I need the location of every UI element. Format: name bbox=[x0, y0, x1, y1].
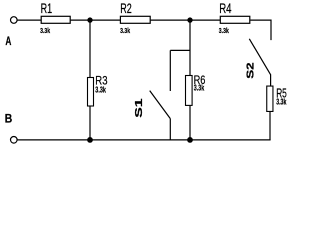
svg-text:3.3k: 3.3k bbox=[219, 26, 230, 35]
svg-text:R2: R2 bbox=[120, 1, 132, 16]
svg-text:B: B bbox=[5, 111, 13, 125]
svg-text:S1: S1 bbox=[134, 98, 145, 118]
svg-text:A: A bbox=[5, 34, 11, 48]
svg-text:S2: S2 bbox=[246, 62, 257, 79]
svg-text:3.3k: 3.3k bbox=[40, 26, 51, 35]
svg-text:3.3k: 3.3k bbox=[194, 84, 205, 93]
svg-text:R1: R1 bbox=[41, 1, 53, 16]
svg-text:3.3k: 3.3k bbox=[120, 26, 131, 35]
svg-text:R4: R4 bbox=[219, 1, 232, 16]
svg-text:3.3k: 3.3k bbox=[95, 86, 106, 95]
svg-text:3.3k: 3.3k bbox=[276, 98, 286, 107]
